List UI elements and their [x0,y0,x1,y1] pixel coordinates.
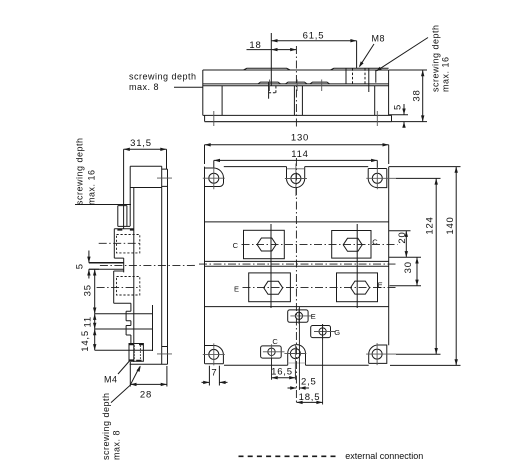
main view rib double line [205,261,389,266]
svg-text:28: 28 [140,390,152,401]
hole cross ticks [203,164,396,371]
left view right column lines [162,166,168,364]
terminal column line left [270,224,272,308]
left view E row centerline [97,286,141,288]
svg-text:35: 35 [82,284,93,296]
top view baseplate [203,115,392,121]
left view M4 hidden thread [134,345,140,360]
label screwing depth max.16 (right, rotated) with leader [377,38,428,71]
svg-text:16,5: 16,5 [271,366,293,377]
top view seam ticks [270,80,322,92]
aux terminal E [288,310,308,322]
svg-text:max. 8: max. 8 [111,430,121,460]
label screwing depth max.8 (bottom, rotated) with leader [111,367,140,403]
top view seam bump 2 [286,82,308,84]
dimension 61,5 [271,41,356,69]
left view step below E boss [130,303,132,343]
C row centerline [242,243,398,245]
dimension 35 [95,269,153,313]
nut C right [343,238,362,251]
left view lug bottom line [130,187,162,189]
top middle hole boss [287,167,305,188]
top view hidden M8 nut [353,68,366,84]
top view seam lines [203,84,389,86]
mounting hole bottom-left [209,349,219,359]
left view upper face lines [130,166,134,362]
label screwing depth max.16 (left, rotated) with leader [75,204,131,206]
top view case outline [203,70,389,115]
corner lug bottom-left [205,346,224,364]
E row centerline [243,287,398,289]
left view top edge [130,165,162,167]
left view C terminal boss [114,229,134,273]
dimension 16,5 [272,377,296,379]
main vertical centerline [295,158,297,405]
top view seam bump 1 [258,82,281,84]
svg-text:5: 5 [75,263,86,269]
top view baseplate ticks [214,111,377,126]
nut E left [264,281,283,294]
top view tick near M8 [375,70,377,82]
dimension 18,5 [296,401,322,403]
top view skirt verticals [222,86,375,116]
top view terminal bump 1 [244,68,291,70]
left view M4 corner marks [129,344,143,360]
dimension 130 [205,145,389,164]
dimension 31,5 [124,149,167,229]
dimension 5 (baseplate) [389,104,408,128]
svg-text:114: 114 [291,149,309,160]
top view M8 pocket walls [346,68,369,92]
left view aux pin boss 1 [126,311,131,321]
main horizontal centerline [199,263,396,265]
dimension 30 [389,257,421,286]
left view M4 boss [129,344,143,362]
dimension 2,5 [288,387,310,389]
label M4 with leader [118,362,129,375]
svg-text:7: 7 [211,368,217,379]
svg-text:E: E [311,312,316,321]
svg-text:screwing depth: screwing depth [129,72,197,82]
main view rib line 2 [205,306,389,308]
corner lug top-left [205,168,224,187]
dimension 38 [389,70,427,122]
dimension 11 [95,314,153,329]
left view aux pin boss 2 [126,326,131,336]
terminal column line right [356,224,358,308]
svg-text:130: 130 [291,133,309,144]
left view C row centerline [99,242,141,244]
terminal pad C right [332,231,371,259]
left view C boss corner marks [117,229,133,231]
svg-text:18: 18 [249,40,261,51]
bottom middle hole boss [288,345,306,366]
svg-text:124: 124 [425,216,436,234]
svg-text:M4: M4 [104,375,118,385]
left view ledge between bosses [89,262,124,264]
terminal pad E right [337,273,378,302]
dimension 140 [389,167,461,366]
svg-text:screwing depth: screwing depth [101,392,111,460]
top view seam bump 3 [310,82,330,84]
corner lug top-right [368,169,387,188]
nut C left [257,238,276,251]
left view aux inner line [152,305,154,351]
mounting hole top-right [372,173,382,183]
dimension 20 [389,231,411,258]
mounting hole top-middle [291,174,301,184]
aux C column line [271,358,273,380]
dimension 28 [130,362,167,387]
svg-text:5: 5 [392,104,403,110]
dimension 18 [247,33,297,86]
legend external connection [239,455,340,457]
left view hidden nut C [117,235,140,253]
left view top screw box [118,206,130,227]
svg-text:20: 20 [397,231,408,243]
dimension 114 [214,160,377,167]
terminal pad E left [249,273,291,302]
svg-text:E: E [378,280,383,289]
svg-text:C: C [233,241,239,250]
nut E right [351,281,370,294]
left view hidden nut E [117,277,140,296]
svg-text:2,5: 2,5 [301,377,317,388]
svg-text:38: 38 [411,89,422,101]
left view bottom lug side box [162,346,168,348]
svg-text:external connection: external connection [345,451,423,461]
left view top lug side box [162,169,168,186]
left view bottom edge [130,363,168,365]
aux terminal G [311,326,331,338]
top view hidden screw pocket (max.8) [268,82,270,99]
left view main horizontal centerline [100,264,197,266]
label M8 with leader [360,44,374,66]
mounting hole top-left [209,173,219,183]
svg-text:14,5: 14,5 [80,330,91,352]
left view hole row ticks [157,178,172,354]
top view terminal bump 2 (M8 area) [331,68,389,70]
svg-text:E: E [234,284,239,293]
corner lug bottom-right [369,345,387,363]
svg-text:61,5: 61,5 [303,31,325,42]
svg-text:18,5: 18,5 [299,392,321,403]
dimension 124 [396,178,441,354]
svg-text:screwing depth: screwing depth [430,24,440,92]
svg-text:11: 11 [82,316,93,327]
mounting hole bottom-right [372,349,382,359]
svg-text:screwing depth: screwing depth [74,137,84,205]
mounting hole bottom-middle [290,349,300,359]
aux terminal C [261,346,282,358]
svg-text:max. 8: max. 8 [129,82,159,92]
svg-text:max. 16: max. 16 [440,56,450,92]
svg-text:31,5: 31,5 [130,138,152,149]
main view rib line 1 [205,221,389,223]
svg-text:30: 30 [403,261,414,273]
aux E column line [298,307,300,390]
svg-text:max. 16: max. 16 [86,169,96,205]
dimension 7 [202,366,228,386]
dimension 5 (left view ledge) [89,251,99,279]
terminal pad C left [244,230,285,258]
left view E terminal boss [114,271,131,303]
top view main centerline [295,46,297,127]
aux G column line [322,324,324,405]
svg-text:C: C [272,337,278,346]
svg-text:140: 140 [445,216,456,234]
dimension 14,5 [95,329,153,350]
svg-text:G: G [334,328,340,337]
svg-text:M8: M8 [372,34,386,44]
main view body outline [205,167,389,366]
bottom middle hole extension [294,370,296,380]
svg-text:C: C [372,237,378,246]
